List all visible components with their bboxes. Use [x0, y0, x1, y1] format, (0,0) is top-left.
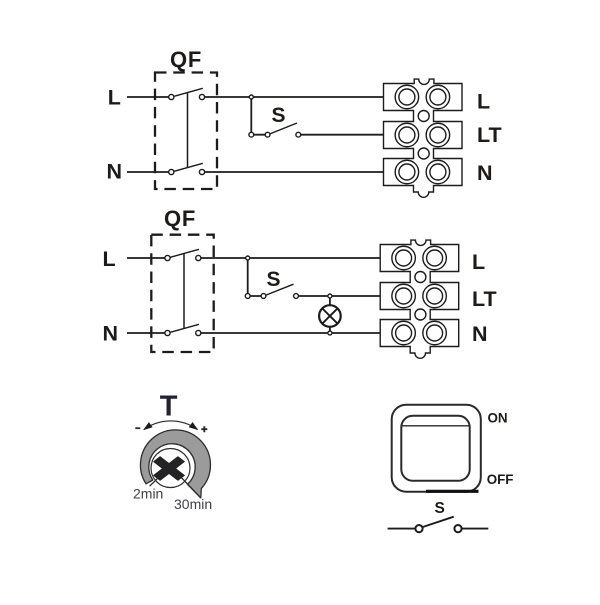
wire LT (top diagram) [251, 134, 383, 136]
rocker switch frame [392, 405, 481, 492]
wire L (middle diagram) [127, 257, 380, 259]
terminal block X1 (middle diagram) [380, 240, 459, 358]
breaker QF mechanical link [187, 93, 189, 168]
svg-text:T: T [160, 391, 178, 423]
knob cross slot [145, 450, 194, 487]
arrowhead right [189, 422, 199, 430]
terminal block X1 (top diagram) [384, 79, 463, 197]
svg-text:QF: QF [164, 206, 196, 231]
switch S blade (top diagram) [270, 123, 297, 134]
svg-text:S: S [435, 500, 445, 517]
lamp drop wire (middle diagram) [329, 296, 331, 333]
svg-text:L: L [472, 250, 485, 274]
lamp EL circle (middle diagram) [319, 305, 341, 327]
svg-text:QF: QF [170, 47, 202, 72]
switch S wire left (bottom) [388, 528, 415, 530]
breaker QF enclosure (dashed) [155, 73, 217, 190]
breaker QF pole 1 contacts (middle diagram) [165, 255, 170, 260]
svg-text:L: L [103, 247, 116, 271]
rocker ridge line [402, 425, 470, 427]
pointer 2min line [150, 477, 159, 486]
switch S blade (bottom) [423, 517, 454, 527]
breaker QF pole 1 blade (middle diagram) [170, 249, 199, 257]
rocker shadow bar [426, 490, 479, 493]
wire L (top diagram) [127, 96, 384, 98]
wire N (top diagram) [127, 171, 384, 173]
svg-text:30min: 30min [174, 496, 212, 512]
node lamp top on LT (middle diagram) [328, 294, 332, 298]
breaker QF pole 1 contacts [169, 94, 174, 99]
svg-text:L: L [477, 90, 490, 114]
knob dial circle [151, 449, 190, 488]
node junction on L (top diagram) [249, 95, 253, 99]
rocker button [401, 416, 469, 481]
switch S blade (middle diagram) [266, 284, 294, 295]
svg-text:N: N [472, 322, 488, 346]
svg-text:LT: LT [477, 123, 502, 147]
svg-text:N: N [477, 161, 493, 185]
node lamp bottom on N (middle diagram) [328, 331, 332, 335]
wire branch drop from L to switch S (middle diagram) [247, 258, 249, 296]
breaker QF mechanical link (middle diagram) [183, 254, 185, 329]
lamp EL cross (middle diagram) [322, 308, 337, 323]
adjustment arc arrow [144, 421, 198, 430]
svg-text:S: S [267, 268, 281, 291]
breaker QF pole 2 blade [174, 163, 203, 171]
svg-text:ON: ON [488, 410, 508, 425]
node junction on L (middle diagram) [246, 256, 250, 260]
wire LT (middle diagram) [248, 295, 381, 297]
knob body (gray annular sector) [140, 430, 210, 498]
switch S contacts (bottom) [415, 525, 422, 532]
switch S contacts (middle diagram) [245, 294, 250, 299]
svg-text:LT: LT [472, 287, 497, 311]
arrowhead left [143, 422, 153, 430]
wire N (middle diagram) [127, 332, 380, 334]
svg-text:S: S [272, 104, 286, 127]
svg-text:OFF: OFF [487, 472, 514, 487]
breaker QF pole 2 blade (middle diagram) [170, 324, 199, 332]
breaker QF pole 1 blade [174, 88, 203, 96]
svg-text:L: L [108, 86, 121, 110]
label plus [201, 426, 207, 432]
svg-text:2min: 2min [133, 486, 163, 502]
breaker QF pole 2 contacts (middle diagram) [165, 330, 170, 335]
breaker QF enclosure (dashed, middle diagram) [151, 235, 213, 352]
breaker QF pole 2 contacts [169, 169, 174, 174]
svg-text:N: N [103, 322, 119, 346]
switch S contacts (top diagram) [249, 132, 254, 137]
pointer 30min line [179, 475, 201, 498]
switch S wire right (bottom) [462, 528, 488, 530]
label minus [135, 427, 140, 429]
wire branch drop from L to switch S (top diagram) [250, 97, 252, 135]
svg-text:N: N [107, 160, 123, 184]
